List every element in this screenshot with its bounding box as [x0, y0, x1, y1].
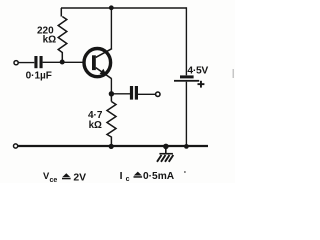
svg-text:0·1µF: 0·1µF — [26, 70, 52, 81]
capacitor C2 plate left — [130, 86, 133, 100]
battery BT1 negative plate (short thick) — [180, 75, 194, 78]
wire battery branch top — [185, 7, 187, 75]
terminal bottom-left (open circle) — [14, 144, 18, 148]
node collector junction on top rail — [109, 5, 114, 10]
label Ic approx 0.5mA — [120, 171, 175, 183]
svg-text:2V: 2V — [73, 172, 86, 183]
resistor R1 220k — [58, 8, 67, 62]
wire battery branch bottom — [185, 82, 187, 147]
wire input to C1 — [18, 62, 34, 64]
svg-text:I: I — [120, 171, 123, 182]
node ground junction on bottom rail — [163, 144, 169, 150]
wire collector to top rail — [110, 8, 112, 49]
ground symbol — [157, 149, 173, 162]
capacitor C1 plate left — [34, 56, 37, 68]
node emitter junction — [109, 91, 114, 96]
wire C2 to output terminal — [138, 93, 155, 95]
svg-text:kΩ: kΩ — [43, 35, 57, 46]
label Vce approx 2V — [43, 170, 86, 184]
svg-text:4·5V: 4·5V — [187, 66, 208, 77]
wire bottom rail — [18, 145, 208, 147]
transistor Q1 — [84, 49, 112, 79]
wire emitter down to node — [110, 78, 112, 94]
node R2 junction on bottom rail — [109, 144, 114, 149]
svg-text:0·5mA: 0·5mA — [143, 171, 175, 182]
svg-text:kΩ: kΩ — [89, 120, 102, 131]
resistor R2 4.7k — [107, 94, 116, 147]
wire top supply rail — [61, 7, 187, 9]
svg-text:c: c — [126, 176, 130, 183]
svg-text:ce: ce — [50, 177, 58, 183]
terminal input (open circle) — [14, 61, 18, 65]
battery BT1 positive plate (long thin) — [174, 80, 199, 82]
label battery polarity + — [198, 81, 205, 88]
node base junction — [60, 60, 65, 65]
node battery junction on bottom rail — [184, 144, 189, 149]
capacitor C2 plate right — [135, 86, 138, 100]
scan artifact speck after 0.5mA — [184, 171, 186, 173]
scan artifact right edge dash — [232, 69, 234, 78]
capacitor C1 plate right — [40, 56, 43, 68]
wire emitter node to C2 — [113, 93, 130, 95]
wire C1 to base — [43, 61, 84, 63]
terminal output (open circle) — [156, 92, 160, 96]
